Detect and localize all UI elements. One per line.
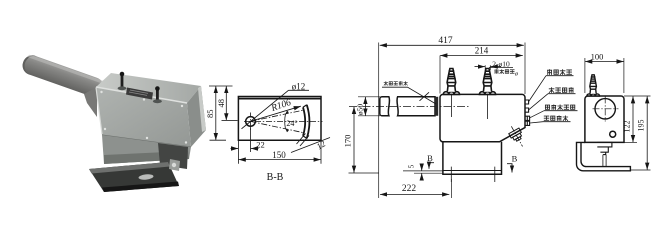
CJK label: cable interface under 2-d10 [495, 69, 515, 74]
label leader guangLan [382, 87, 436, 104]
dim 48 line [225, 86, 227, 120]
horizontal centerline [244, 120, 323, 122]
svg-text:B: B [512, 153, 518, 163]
R106 arc slot inner [303, 107, 305, 136]
tube main piece [397, 97, 435, 116]
side stud [587, 75, 600, 96]
svg-text:2-ø10: 2-ø10 [492, 59, 510, 68]
dim 85 extension bottom [210, 139, 227, 141]
stud 2 [479, 69, 495, 95]
slot width 12 ticks [297, 134, 310, 147]
svg-text:417: 417 [438, 36, 453, 46]
tube centerline [349, 106, 470, 108]
photo lower pedestal [102, 135, 191, 164]
photo stud 1 [121, 75, 124, 89]
B arrow right [507, 164, 512, 173]
side body [585, 96, 624, 142]
dim 48 extension bottom [222, 119, 238, 121]
svg-text:85: 85 [205, 110, 215, 119]
svg-text:195: 195 [637, 120, 646, 132]
R106 arc slot outer [307, 105, 310, 139]
section plane lines + dim 5 [403, 171, 443, 173]
svg-text:150: 150 [272, 150, 286, 160]
photo box right face [187, 86, 206, 147]
svg-text:222: 222 [402, 184, 417, 194]
B arrow left [429, 163, 434, 169]
dim 150 line [239, 159, 321, 161]
photo box front face [96, 87, 191, 147]
dim 195 [624, 96, 651, 170]
svg-text:122: 122 [623, 121, 632, 133]
CJK label: power indicator [547, 69, 572, 75]
svg-text:48: 48 [216, 99, 226, 108]
tube end piece (break) [380, 97, 390, 116]
dim 22 ext + line [238, 126, 321, 164]
chamfer button (self-check) [506, 124, 527, 150]
lower box [443, 142, 502, 175]
circle centerlines [250, 113, 252, 131]
lower fan line +12deg [251, 121, 304, 132]
svg-text:24°: 24° [286, 119, 297, 128]
photo bracket slot [138, 174, 153, 181]
CJK label: guang lan an zhuang chu (aperture mounting place) [384, 81, 408, 85]
photo tube (cylindrical sight tube) [20, 53, 106, 100]
d12 leader through circle [242, 90, 289, 129]
12 leader [291, 138, 330, 153]
main body outline [440, 94, 525, 141]
dim 85 extension top [209, 85, 233, 87]
photo stud 2 [156, 89, 159, 101]
svg-text:100: 100 [591, 52, 604, 62]
photo mounting bracket vertical flange [158, 143, 188, 169]
leaders to right labels [529, 76, 574, 102]
photo box top face [96, 73, 201, 103]
side bolt under body [597, 142, 612, 154]
aperture plate (dark) [435, 97, 438, 116]
photo tube joint shadow [84, 87, 97, 117]
aperture circle d12 [246, 117, 256, 127]
svg-text:B: B [427, 153, 433, 163]
dim 222 [450, 179, 452, 198]
section rect outline [238, 97, 321, 141]
R106 leader arrow [251, 106, 301, 121]
right edge tabs (indicators / knobs) [525, 100, 529, 112]
photo side connector [169, 159, 180, 171]
svg-text:22: 22 [256, 140, 265, 150]
svg-text:170: 170 [343, 135, 353, 148]
photo mounting bracket base plate [89, 162, 179, 192]
dim 85 line [215, 86, 217, 140]
stud 1 [443, 69, 459, 95]
CJK label: self-check button [544, 116, 568, 121]
top inner double line [238, 98, 321, 100]
svg-text:ø: ø [514, 72, 519, 78]
dim 100 [585, 58, 624, 93]
CJK label: sensitivity adjust [545, 105, 574, 110]
side lens circle [595, 99, 615, 119]
CJK label: action indicator [549, 87, 574, 93]
side L bracket [577, 142, 631, 170]
dim 2-d10 [485, 65, 490, 70]
svg-text:214: 214 [475, 46, 489, 56]
svg-text:B-B: B-B [267, 172, 284, 183]
dim 417 [379, 43, 525, 199]
upper fan line -12deg [251, 110, 304, 121]
lower box screws centerlines [451, 167, 495, 182]
hatch stroke at joint [420, 92, 430, 101]
photo screws on front face [100, 91, 187, 144]
photo terminal block on top [126, 88, 153, 100]
side small knob [610, 131, 616, 137]
dim 214 [439, 56, 441, 94]
dim 122 [624, 141, 637, 143]
dim 170 [349, 172, 379, 174]
svg-text:ø50: ø50 [355, 104, 364, 116]
svg-text:ø12: ø12 [292, 81, 306, 91]
24deg angle arc [284, 114, 287, 129]
dim phi50 [358, 97, 380, 116]
svg-text:5: 5 [408, 164, 416, 168]
